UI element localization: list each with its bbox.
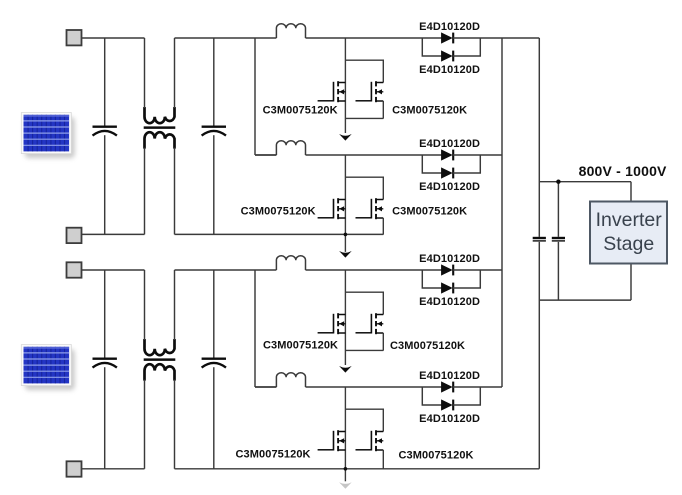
capacitor C3 (ch2 input filter) [93, 270, 117, 469]
svg-text:E4D10120D: E4D10120D [419, 138, 480, 150]
junction: Q2B-1 source on return rail [344, 467, 348, 471]
wire: ch2 top rail choke to boost bus [175, 269, 256, 271]
wire: Q2A-2 source lead [382, 333, 384, 351]
wire: ch1 phase A rail to inductor [275, 37, 277, 39]
wire: ch2 top rail bus to inductor (phase A) [255, 269, 276, 271]
wire: ch2 phase A diode branch left [422, 270, 442, 288]
ground return arrow below Q2B-1/Q2B-2 [339, 482, 352, 489]
svg-text:C3M0075120K: C3M0075120K [236, 449, 311, 461]
wire: ch1 top rail bus to inductor (phase A) [255, 37, 276, 39]
diode D2A-1 [441, 265, 453, 276]
wire: source bracket of Q1A-1/Q1A-2 [345, 117, 383, 119]
ground return arrow below Q2A-1/Q2A-2 [339, 366, 352, 373]
MOSFET Q1B-1 [318, 198, 346, 219]
wire: ch2 phase B rail to inductor [255, 386, 276, 388]
wire: ch2 top rail terminal to CM choke [82, 269, 145, 271]
ground return arrow below Q1B-1/Q1B-2 [339, 251, 352, 258]
wire: drain/source vertical of Q1B-1 pair [344, 155, 346, 252]
svg-text:E4D10120D: E4D10120D [419, 370, 480, 382]
wire: ch2 bottom rail choke to output negative bus [175, 468, 540, 470]
wire: common-mode choke L4 bottom-winding left lead [144, 380, 146, 469]
inductor L3 (ch1 phase B boost) [276, 141, 305, 155]
svg-text:C3M0075120K: C3M0075120K [392, 105, 467, 117]
wire: drain/source vertical of Q2A-1 pair [344, 270, 346, 365]
wire: ch2 phase A rail inductor to diode [306, 269, 442, 271]
wire: Q1A-2 source lead [382, 101, 384, 119]
input terminal ch2 positive [67, 262, 82, 277]
svg-text:Stage: Stage [603, 233, 654, 255]
common-mode choke L4: core bar [144, 358, 176, 361]
common-mode choke L4: top winding [145, 339, 175, 355]
wire: ch2 phase A rail to inductor [275, 269, 277, 271]
diode D1A-1 [441, 33, 453, 44]
wire: Q2B-2 source lead [382, 450, 384, 469]
wire: common-mode choke L1 top-winding right lead [174, 38, 176, 108]
wire: common-mode choke L4 bottom-winding right lead [174, 380, 176, 469]
wire: output positive collection bus A [501, 38, 503, 387]
wire: drain bracket to Q1B-2 [345, 177, 383, 199]
common-mode choke L4: bottom winding [145, 364, 175, 380]
junction: DC+ node at C6 tap [556, 180, 560, 184]
diode D1A-2 [441, 51, 453, 62]
wire: ch1 phase B rail to inductor [255, 154, 276, 156]
svg-text:C3M0075120K: C3M0075120K [392, 205, 467, 217]
svg-text:E4D10120D: E4D10120D [419, 64, 480, 76]
wire: inverter DC+ drop [630, 182, 632, 202]
wire: ch1 phase A diode branch left [422, 38, 442, 56]
MOSFET Q1B-2 [356, 198, 384, 219]
wire: common-mode choke L1 top-winding left lead [144, 38, 146, 108]
common-mode choke L1: top winding [145, 107, 175, 123]
wire: Q1B-2 source lead [382, 218, 384, 235]
svg-text:C3M0075120K: C3M0075120K [263, 339, 338, 351]
MOSFET Q2B-2 [356, 430, 384, 451]
wire: ch2 boost input bus [254, 270, 256, 387]
diode D2B-2 [441, 400, 453, 411]
wire: ch1 phase B rail inductor to diode [306, 154, 442, 156]
capacitor C2 (ch1 input filter) [202, 38, 226, 234]
wire: ch1 phase B rail diode to output bus [453, 154, 502, 156]
diode D2B-1 [441, 382, 453, 393]
wire: drain/source vertical of Q2B-1 pair [344, 387, 346, 481]
common-mode choke L1: bottom winding [145, 132, 175, 148]
wire: output negative bus B (bottom) [538, 242, 540, 469]
svg-text:800V - 1000V: 800V - 1000V [579, 163, 667, 179]
wire: ch1 top rail choke to boost bus [175, 37, 256, 39]
wire: ch2 phase A diode branch right [453, 270, 480, 288]
MOSFET Q2A-1 [318, 313, 346, 334]
wire: drain bracket to Q1A-2 [345, 60, 383, 82]
wire: ch2 bottom rail terminal to CM choke [82, 468, 145, 470]
block: Inverter Stage [590, 202, 667, 264]
common-mode choke L1: core bar [144, 126, 176, 129]
wire: ch1 boost input bus [254, 38, 256, 155]
svg-text:E4D10120D: E4D10120D [419, 21, 480, 33]
input terminal ch1 positive [67, 30, 82, 45]
inductor L6 (ch2 phase B boost) [276, 373, 305, 387]
PV panel 1 (solar array icon) [21, 113, 75, 159]
wire: C6 bottom lead [557, 242, 559, 300]
junction: Q1B-1 source on return rail [344, 233, 348, 237]
wire: DC- to inverter stage [539, 299, 631, 301]
MOSFET Q2A-2 [356, 313, 384, 334]
wire: common-mode choke L4 top-winding right lead [174, 270, 176, 340]
wire: inverter DC- drop [630, 264, 632, 301]
MOSFET Q2B-1 [318, 430, 346, 451]
wire: ch1 phase A rail inductor to diode [306, 37, 442, 39]
svg-text:Inverter: Inverter [596, 209, 663, 231]
wire: ch1 phase B diode branch left [422, 155, 442, 173]
wire: source bracket of Q2A-1/Q2A-2 [345, 349, 383, 351]
wire: ch1 phase A rail diode to output bus [453, 37, 539, 39]
wire: common-mode choke L4 top-winding left lead [144, 270, 146, 340]
PV panel 2 (solar array icon) [21, 345, 75, 391]
wire: ch1 top rail terminal to CM choke [82, 37, 145, 39]
wire: drain bracket to Q2B-2 [345, 409, 383, 431]
svg-text:E4D10120D: E4D10120D [419, 253, 480, 265]
wire: ch2 phase B rail from bus [255, 386, 276, 388]
wire: C6 top lead [557, 182, 559, 237]
wire: ch2 phase B rail inductor to diode [306, 386, 442, 388]
wire: ch1 phase B rail from bus [255, 154, 276, 156]
svg-text:C3M0075120K: C3M0075120K [399, 450, 474, 462]
diode D1B-1 [441, 150, 453, 161]
input terminal ch1 negative [67, 228, 82, 243]
svg-text:E4D10120D: E4D10120D [419, 413, 480, 425]
wire: ch1 phase A diode branch right [453, 38, 480, 56]
diode D2A-2 [441, 283, 453, 294]
wire: output positive bus B (top) [538, 38, 540, 237]
svg-text:E4D10120D: E4D10120D [419, 296, 480, 308]
ground return arrow below Q1A-1/Q1A-2 [339, 134, 352, 141]
input terminal ch2 negative [67, 461, 82, 476]
svg-text:C3M0075120K: C3M0075120K [390, 340, 465, 352]
wire: ch1 phase B diode branch right [453, 155, 480, 173]
wire: drain bracket to Q2A-2 [345, 292, 383, 314]
MOSFET Q1A-2 [356, 81, 384, 102]
wire: common-mode choke L1 bottom-winding left lead [144, 148, 146, 235]
svg-text:C3M0075120K: C3M0075120K [241, 205, 316, 217]
capacitor C5 (DC link) [533, 238, 546, 241]
wire: ch1 bottom rail terminal to CM choke [82, 233, 145, 235]
wire: ch2 phase A rail diode to output bus [453, 269, 502, 271]
wire: drain/source vertical of Q1A-1 pair [344, 38, 346, 133]
wire: ch1 bottom rail choke to Q1B source [175, 233, 384, 235]
inductor L5 (ch2 phase A boost) [276, 256, 305, 270]
wire: DC+ to inverter stage [539, 181, 631, 183]
capacitor C1 (ch1 input filter) [93, 38, 117, 234]
svg-text:E4D10120D: E4D10120D [419, 181, 480, 193]
capacitor C4 (ch2 input filter) [202, 270, 226, 469]
inductor L2 (ch1 phase A boost) [276, 24, 305, 38]
wire: common-mode choke L1 bottom-winding right lead [174, 148, 176, 235]
capacitor C6 (DC link) [552, 238, 565, 241]
wire: ch2 phase B diode branch right [453, 387, 480, 405]
MOSFET Q1A-1 [318, 81, 346, 102]
wire: ch2 phase B rail diode to output bus [453, 386, 502, 388]
wire: ch2 phase B diode branch left [422, 387, 442, 405]
svg-text:C3M0075120K: C3M0075120K [263, 105, 338, 117]
diode D1B-2 [441, 168, 453, 179]
